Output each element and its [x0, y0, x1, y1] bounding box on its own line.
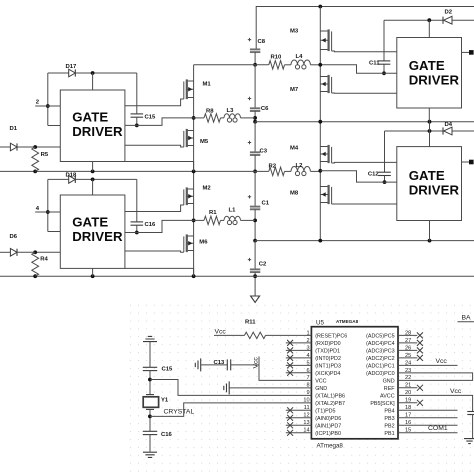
transistor M4 [320, 146, 328, 148]
wire driver1 gate M1 [125, 99, 184, 106]
svg-text:PB1: PB1 [384, 431, 394, 437]
right no-connect pins [398, 334, 417, 336]
svg-text:M4: M4 [290, 146, 299, 152]
wire L2 to phase [310, 170, 320, 172]
capacitor C6 [250, 107, 260, 109]
transistor M1 [187, 80, 194, 82]
svg-text:PB3: PB3 [384, 416, 394, 422]
svg-text:DRIVER: DRIVER [409, 72, 460, 87]
svg-text:AVCC: AVCC [380, 394, 395, 400]
wire driver3 phase [320, 65, 397, 74]
wire right half-bridge column [319, 7, 321, 241]
wire boot2 vertical [47, 179, 49, 231]
wire R1-L1 [221, 219, 225, 221]
svg-text:CRYSTAL: CRYSTAL [164, 408, 195, 415]
node pin2 junction [46, 104, 50, 108]
diode D4 [444, 127, 452, 135]
IC U5 ATmega8 box [311, 327, 398, 439]
svg-text:(ADC0)PC0: (ADC0)PC0 [366, 371, 394, 377]
svg-text:M6: M6 [199, 240, 208, 246]
wire R10-L4 [285, 64, 292, 66]
svg-text:L1: L1 [229, 208, 237, 214]
wire R11 to pin1 [266, 334, 312, 336]
wire pin24 Vcc [398, 364, 458, 366]
wire driver1 gate M5 [125, 145, 184, 147]
wire boot4 horizontal [385, 130, 444, 132]
wire pin8 gnd [229, 387, 311, 389]
svg-text:Vcc: Vcc [215, 329, 227, 336]
svg-text:C16: C16 [161, 432, 173, 438]
node driver3 top junction [427, 18, 431, 22]
node rail-M3 junction [318, 5, 322, 9]
wire output bus B [255, 121, 474, 123]
wire driver3 top [428, 20, 430, 37]
node R4 top [33, 250, 37, 254]
node D17 cathode [91, 71, 95, 75]
wire C8 bottom [254, 52, 256, 65]
ground [251, 296, 260, 302]
wire C2 bottom [254, 272, 256, 296]
wire boot3 horizontal [384, 19, 444, 21]
svg-text:R10: R10 [271, 55, 283, 61]
wire input 2 [35, 105, 60, 107]
diode D6 [0, 251, 10, 253]
wire pin7 Vcc [259, 357, 311, 381]
wire XTAL2 to pin10 [150, 403, 312, 417]
ground crystal bottom [143, 452, 157, 457]
svg-text:ATMEGA8: ATMEGA8 [336, 319, 359, 324]
transistor M6 [187, 235, 194, 237]
wire M1 drain to C8 node [194, 64, 269, 66]
node M5 source bus [192, 170, 196, 174]
svg-text:R11: R11 [245, 319, 256, 325]
svg-text:(INT1)PD3: (INT1)PD3 [315, 364, 341, 370]
wire driver3 gate M3 [332, 50, 397, 53]
wire L1 to C1 node [241, 219, 256, 221]
node R4 bottom [33, 274, 37, 278]
svg-text:D17: D17 [66, 64, 78, 70]
wire L4 to phase [310, 64, 320, 66]
svg-text:REF: REF [384, 386, 395, 392]
node C12 out [383, 180, 387, 184]
wire driver3 output [462, 51, 472, 53]
svg-text:Vcc: Vcc [436, 358, 448, 365]
node C15 out [135, 124, 139, 128]
svg-text:U5: U5 [316, 319, 324, 326]
wire driver4 gate M4 [332, 161, 397, 164]
node driver1 bottom [91, 170, 95, 174]
svg-text:C15: C15 [145, 114, 157, 120]
ground analog [195, 358, 200, 371]
svg-text:GATE: GATE [409, 58, 445, 73]
svg-text:2: 2 [36, 100, 40, 106]
svg-text:DRIVER: DRIVER [72, 229, 123, 244]
node M4-M8 phase [318, 169, 322, 173]
svg-text:PB2: PB2 [384, 423, 394, 429]
ground crystal top [143, 336, 157, 341]
wire R2-L2 [285, 170, 292, 172]
svg-text:M2: M2 [203, 186, 212, 192]
resistor R1 [204, 216, 221, 224]
wire pin23 [398, 373, 473, 380]
svg-text:(AIN1)PD7: (AIN1)PD7 [315, 423, 341, 429]
wire boot1 elbow [48, 125, 61, 127]
wire driver2 bottom right [125, 268, 194, 276]
svg-text:(RESET)PC6: (RESET)PC6 [315, 334, 347, 340]
svg-text:C11: C11 [369, 61, 380, 67]
node M3-M7 phase [318, 63, 322, 67]
wire pin18 [398, 409, 458, 411]
svg-text:PB5[SCK]: PB5[SCK] [370, 401, 395, 407]
node C8-R10 [253, 63, 257, 67]
wire driver1 bottom right [125, 162, 194, 172]
wire driver4 gate M8 [332, 203, 397, 205]
svg-text:GATE: GATE [72, 110, 108, 125]
inductor L4 [291, 60, 310, 65]
transistor M2 [187, 188, 194, 190]
node L1 out [253, 219, 257, 223]
svg-text:M1: M1 [203, 82, 212, 88]
resistor R11 [245, 332, 266, 338]
wire pin15 COM1 [398, 432, 458, 434]
wire pin17 [398, 417, 458, 419]
wire column to C1 [254, 171, 256, 206]
capacitor C16 crystal [143, 430, 158, 432]
svg-text:(RXD)PD0: (RXD)PD0 [315, 341, 340, 347]
svg-text:(TXD)PD1: (TXD)PD1 [315, 349, 340, 355]
svg-text:COM1: COM1 [428, 425, 448, 432]
wire C12 bottom [384, 176, 386, 183]
ground pin8 [224, 381, 229, 394]
node driver4 output terminal [469, 160, 474, 165]
svg-text:(ADC3)PC3: (ADC3)PC3 [366, 349, 394, 355]
left no-connect pins [286, 342, 312, 344]
svg-text:GATE: GATE [72, 215, 108, 230]
capacitor C1 [250, 206, 260, 208]
wire left half-bridge column [193, 65, 195, 276]
svg-text:D4: D4 [445, 122, 453, 128]
svg-text:C15: C15 [162, 367, 174, 373]
svg-text:VCC: VCC [315, 379, 326, 385]
wire pin16 [398, 424, 458, 426]
crystal Y1 [146, 394, 154, 396]
gate driver U1 box [60, 90, 125, 162]
svg-text:D6: D6 [10, 234, 18, 240]
inductor L3 [224, 114, 241, 118]
svg-text:(ICP1)PB0: (ICP1)PB0 [315, 431, 341, 437]
svg-text:(ADC5)PC5: (ADC5)PC5 [366, 334, 394, 340]
node M1-M5 phase [192, 116, 196, 120]
wire C15b to Y1 [149, 371, 151, 395]
svg-text:M5: M5 [200, 139, 209, 145]
wire driver2 bottom center [92, 268, 94, 276]
wire column to C6 [254, 65, 256, 109]
diode D2 [444, 16, 452, 24]
svg-text:M3: M3 [290, 29, 299, 35]
svg-text:(ADC4)PC4: (ADC4)PC4 [366, 341, 394, 347]
svg-text:C8: C8 [258, 39, 266, 45]
wire R8-L3 [221, 117, 225, 119]
svg-text:Vcc: Vcc [450, 388, 462, 395]
resistor R4 [32, 252, 39, 276]
capacitor C12 [378, 171, 391, 173]
ground AVCC [464, 439, 474, 444]
node driver2 bottom [91, 274, 95, 278]
svg-text:M7: M7 [290, 87, 299, 93]
wire pin20 AVCC [398, 395, 473, 411]
svg-text:Y1: Y1 [161, 398, 169, 404]
node pin4 junction [46, 210, 50, 214]
wire C3 bottom [254, 155, 256, 171]
node R5 top [33, 145, 37, 149]
svg-text:ATmega8: ATmega8 [317, 443, 344, 450]
svg-text:R2: R2 [269, 163, 277, 169]
wire Vcc to R11 [214, 334, 245, 336]
resistor R8 [204, 114, 221, 122]
wire driver4 bottom [429, 221, 431, 241]
svg-text:D2: D2 [445, 10, 453, 16]
wire driver3 gate M7 [332, 92, 397, 94]
wire C1 bottom [254, 209, 256, 240]
wire top supply rail to C8 [256, 7, 474, 50]
resistor R10 [269, 61, 285, 69]
wire driver4 top [429, 122, 431, 147]
wire C12 drop [384, 131, 386, 172]
capacitor C15 crystal [143, 366, 158, 368]
svg-text:C6: C6 [261, 106, 269, 112]
capacitor C3 [250, 151, 260, 153]
svg-text:C12: C12 [368, 171, 380, 177]
wire C15 drop [136, 73, 138, 114]
resistor R2 [269, 167, 285, 175]
svg-text:C3: C3 [260, 149, 268, 155]
svg-text:L3: L3 [227, 108, 235, 114]
wire input 4 [35, 211, 60, 213]
svg-text:C2: C2 [259, 262, 267, 268]
wire driver1 phase [125, 118, 194, 126]
wire C11 bottom [383, 64, 385, 73]
gate driver U2 box [60, 195, 125, 268]
svg-text:PB4: PB4 [384, 409, 394, 415]
node bus B M7/M4 [318, 120, 322, 124]
svg-text:DRIVER: DRIVER [409, 182, 460, 197]
svg-text:(AIN0)PD6: (AIN0)PD6 [315, 416, 341, 422]
wire C16b to ground [149, 435, 151, 452]
svg-text:GATE: GATE [409, 168, 445, 183]
capacitor C11 [378, 60, 391, 62]
wire driver1 bottom center [92, 162, 94, 172]
svg-text:R4: R4 [40, 257, 48, 263]
wire driver4 output [462, 161, 472, 163]
wire C6 bottom [254, 111, 256, 122]
wire boot1 vertical [47, 73, 49, 126]
svg-text:R8: R8 [206, 108, 214, 114]
transistor M8 [320, 186, 328, 188]
svg-text:M8: M8 [290, 191, 299, 197]
node bus B junction [253, 120, 257, 124]
diode D1 [0, 146, 10, 148]
node L3 out [253, 116, 257, 120]
wire driver2 phase [125, 220, 194, 232]
wire bus D [255, 240, 474, 242]
wire D18 to driver2 top [92, 179, 94, 195]
svg-text:(XTAL1)PB6: (XTAL1)PB6 [315, 394, 345, 400]
wire column to C3 [254, 122, 256, 153]
node bus E junction [253, 274, 257, 278]
wire cap to ground [472, 415, 474, 439]
resistor R5 [32, 147, 39, 171]
svg-text:C13: C13 [214, 360, 226, 366]
wire C13 to Vcc [231, 364, 259, 366]
node D18 cathode [91, 178, 95, 182]
transistor M5 [187, 130, 194, 132]
wire XTAL1 to pin9 [150, 380, 312, 396]
wire bus E [0, 275, 474, 277]
svg-text:D18: D18 [66, 172, 78, 178]
svg-text:BA: BA [462, 315, 472, 322]
svg-text:R5: R5 [41, 152, 49, 158]
wire boot2 elbow [48, 231, 61, 233]
node C16 out [135, 231, 139, 235]
transistor M7 [320, 76, 328, 78]
capacitor C8 [250, 48, 260, 50]
wire C16 bottom [136, 225, 138, 232]
capacitor C15 [131, 113, 144, 115]
svg-text:L4: L4 [296, 54, 304, 60]
svg-text:DRIVER: DRIVER [72, 124, 123, 139]
svg-text:(XTAL2)PB7: (XTAL2)PB7 [315, 401, 345, 407]
wire phase to R1 [194, 219, 204, 221]
svg-text:R1: R1 [209, 210, 217, 216]
wire D17 to driver1 top [92, 73, 94, 90]
transistor M3 [320, 30, 328, 32]
wire driver2 gate M2 [125, 205, 184, 212]
node XTAL2 [148, 415, 152, 419]
node driver3 output terminal [469, 50, 474, 55]
capacitor C13 [226, 359, 228, 370]
wire driver3 bottom [428, 108, 430, 122]
node bus D M8 [318, 239, 322, 243]
node bus B driver4 [428, 120, 432, 124]
node bus C junction [253, 170, 257, 174]
node M2-M6 phase [192, 219, 196, 223]
wire L3 to C6 node [241, 117, 256, 119]
diode D17 [48, 72, 69, 74]
inductor L2 [291, 167, 310, 172]
wire C11 drop [383, 20, 385, 61]
wire C16 drop [136, 179, 138, 222]
gate driver U3 box [397, 38, 462, 109]
wire column to C2 [254, 241, 256, 270]
svg-text:GND: GND [383, 379, 395, 385]
node bus D driver4 [428, 239, 432, 243]
svg-text:C16: C16 [145, 222, 157, 228]
inductor L1 [224, 216, 241, 220]
wire Y1 to C16b [149, 409, 151, 431]
wire output bus C [0, 170, 269, 172]
node XTAL1 [148, 378, 152, 382]
node bus D junction [253, 239, 257, 243]
capacitor AVCC filter [467, 411, 474, 413]
svg-text:(XCK)PD4: (XCK)PD4 [315, 371, 340, 377]
wire gnd to C13 [201, 364, 228, 366]
wire driver4 phase [320, 171, 397, 182]
svg-text:C1: C1 [262, 201, 270, 207]
node R5 bottom [33, 170, 37, 174]
svg-text:Vcc: Vcc [253, 357, 260, 369]
svg-text:D1: D1 [10, 126, 18, 132]
capacitor C16 [131, 221, 144, 223]
svg-text:(T1)PD5: (T1)PD5 [315, 409, 335, 415]
wire gnd to C15b [149, 342, 151, 368]
svg-text:GND: GND [315, 386, 327, 392]
svg-text:L2: L2 [296, 163, 304, 169]
wire driver2 gate M6 [125, 251, 184, 252]
node C11 out [382, 71, 386, 75]
svg-text:(ADC1)PC1: (ADC1)PC1 [366, 364, 394, 370]
gate driver U4 box [397, 147, 462, 221]
node driver4 boot junction [428, 129, 432, 133]
wire C15 bottom [136, 117, 138, 125]
diode D18 [48, 178, 69, 180]
svg-text:(INT0)PD2: (INT0)PD2 [315, 356, 341, 362]
svg-text:4: 4 [36, 206, 40, 212]
capacitor C2 [250, 268, 260, 270]
svg-text:(ADC2)PC2: (ADC2)PC2 [366, 356, 394, 362]
wire phase to R8 [194, 117, 204, 119]
node M6 source bus [192, 274, 196, 278]
